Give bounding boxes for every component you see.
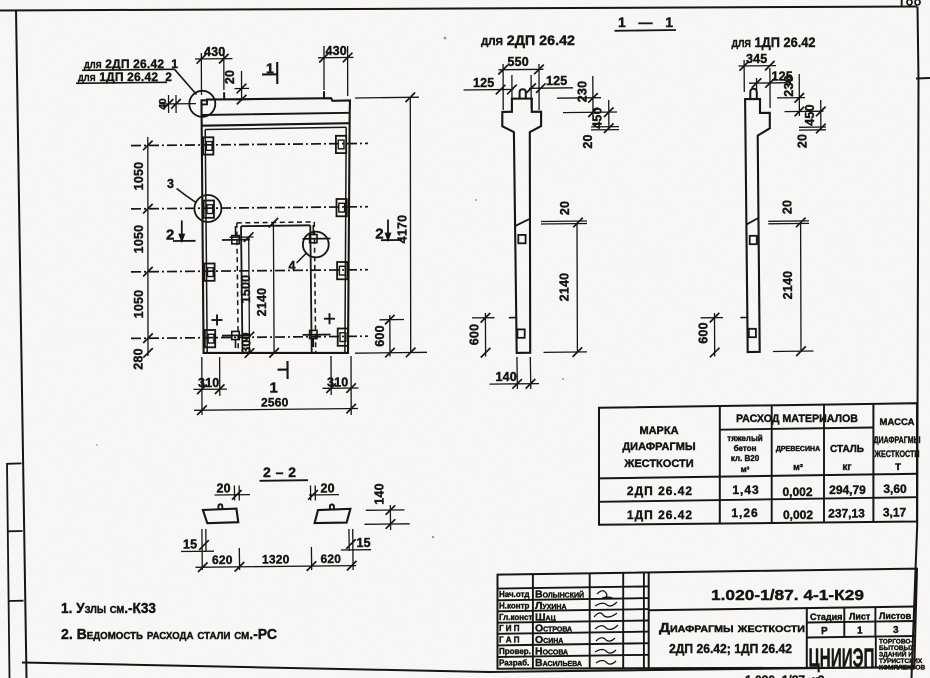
svg-text:2140: 2140 — [781, 271, 795, 300]
section B break line — [746, 218, 758, 225]
svg-text:310: 310 — [198, 376, 219, 390]
sig col line 3 — [622, 573, 624, 669]
svg-text:300: 300 — [240, 332, 254, 353]
dim 20 right (2-2) — [309, 486, 339, 501]
svg-text:Р: Р — [821, 626, 828, 637]
sig row line 3 — [498, 609, 649, 611]
svg-text:ДИАФРАГМЫ: ДИАФРАГМЫ — [622, 441, 696, 453]
svg-text:Н.контр: Н.контр — [499, 602, 530, 611]
door dashed top — [237, 222, 314, 223]
svg-text:Волынский: Волынский — [535, 589, 584, 601]
svg-text:230: 230 — [782, 75, 796, 96]
svg-text:Т: Т — [895, 462, 901, 473]
frame right line — [912, 7, 919, 678]
left inner edge line — [205, 130, 207, 353]
dim 20 B break — [768, 221, 809, 224]
svg-text:600: 600 — [697, 322, 711, 343]
door dim lines — [230, 223, 281, 354]
table col line 4 — [872, 404, 874, 522]
section B stub at 600 level — [740, 317, 746, 319]
section A hole 1 — [518, 235, 525, 243]
svg-text:125: 125 — [546, 74, 567, 88]
door plate axis upper right — [303, 238, 331, 240]
svg-text:280: 280 — [132, 348, 146, 369]
door dashed left — [237, 223, 239, 353]
right dim 600 — [380, 315, 405, 357]
svg-text:бетон: бетон — [734, 444, 757, 453]
right inner edge line — [345, 127, 346, 352]
dim 20 left (2-2) — [215, 486, 251, 501]
svg-text:для 1ДП 26.42 2: для 1ДП 26.42 2 — [78, 70, 172, 84]
table row line 2 — [599, 497, 917, 502]
dim 230 B — [777, 74, 805, 116]
section A break line — [516, 219, 530, 226]
svg-text:1,26: 1,26 — [731, 506, 758, 520]
svg-text:1.020-1/87. 4-1-К29: 1.020-1/87. 4-1-К29 — [711, 587, 864, 604]
top-left notch step — [202, 100, 208, 105]
svg-text:МАРКА: МАРКА — [639, 425, 678, 437]
dim 15 right (2-2) — [341, 529, 371, 570]
svg-text:м³: м³ — [793, 462, 803, 472]
svg-text:для 2ДП 26.42: для 2ДП 26.42 — [481, 32, 575, 48]
plate L3 — [204, 264, 214, 281]
dash-dot axis row 3 — [131, 270, 368, 272]
right edge fold dash — [916, 77, 930, 80]
svg-text:1050: 1050 — [132, 225, 146, 254]
dim 600 B — [701, 313, 724, 357]
dim line 310 right — [323, 387, 359, 389]
left slab piece — [203, 509, 238, 524]
svg-text:древесина: древесина — [776, 443, 820, 454]
plus mark right — [324, 313, 335, 324]
right slab pin — [330, 505, 334, 510]
section B body outline — [750, 89, 757, 99]
svg-text:237,13: 237,13 — [828, 507, 865, 521]
door plate axis lower right — [303, 334, 331, 336]
dim 125 left — [464, 75, 514, 108]
dash-dot axis row 1 — [131, 143, 368, 145]
svg-text:20: 20 — [781, 200, 795, 214]
svg-text:1050: 1050 — [132, 162, 146, 191]
dim 140 A — [490, 357, 540, 389]
svg-text:140: 140 — [373, 483, 387, 504]
svg-text:620: 620 — [212, 553, 233, 567]
svg-text:РАСХОД МАТЕРИАЛОВ: РАСХОД МАТЕРИАЛОВ — [736, 413, 858, 425]
svg-text:4170: 4170 — [396, 215, 410, 244]
svg-text:310: 310 — [327, 376, 348, 390]
dim 140 (2-2) — [365, 505, 410, 530]
svg-text:тяжелый: тяжелый — [727, 434, 763, 443]
svg-text:м³: м³ — [741, 465, 750, 474]
sig names column — [535, 589, 584, 670]
title block outer — [498, 569, 918, 669]
left dimension chain — [147, 137, 149, 356]
door dashed right — [314, 222, 315, 353]
dim line 2560 — [194, 409, 358, 411]
svg-text:ОО: ОО — [906, 0, 922, 8]
svg-text:кг: кг — [842, 462, 851, 473]
table row line 1 — [599, 474, 917, 479]
dim 430 right — [318, 46, 354, 96]
dim 2140 A — [544, 223, 588, 353]
svg-text:450: 450 — [591, 107, 605, 128]
svg-text:Лист: Лист — [849, 612, 871, 622]
svg-text:1320: 1320 — [262, 553, 290, 567]
lifting pin left — [223, 92, 225, 99]
section A body outline — [520, 89, 526, 98]
svg-text:20: 20 — [217, 482, 231, 496]
embedded plates: outer edges — [203, 136, 348, 347]
svg-text:Г А П: Г А П — [499, 636, 520, 645]
left margin cell tick 2 — [8, 530, 23, 532]
plate R4 — [338, 329, 348, 346]
plate R2 — [337, 199, 347, 216]
door plate axis upper left — [222, 239, 250, 241]
dim line 310 left — [194, 388, 228, 390]
plate L2 — [204, 201, 214, 218]
sig col line 2 — [589, 573, 591, 668]
panel outline with corner notches — [202, 98, 351, 353]
svg-text:Стадия: Стадия — [810, 612, 842, 622]
svg-text:кл. В20: кл. В20 — [731, 454, 760, 463]
svg-text:550: 550 — [508, 55, 529, 69]
svg-text:для 1ДП 26.42: для 1ДП 26.42 — [732, 34, 816, 50]
org col separator — [875, 637, 877, 667]
svg-text:2–2: 2–2 — [263, 464, 296, 480]
svg-text:Острова: Острова — [535, 623, 572, 635]
svg-text:Диафрагмы жесткости: Диафрагмы жесткости — [659, 620, 805, 635]
dim 40 (left of circle1) — [159, 95, 196, 113]
svg-text:600: 600 — [468, 324, 482, 345]
dim 430 left — [195, 53, 233, 95]
svg-text:15: 15 — [183, 538, 197, 552]
svg-text:Г И П: Г И П — [499, 624, 520, 633]
svg-text:ДИАФРАГМЫ: ДИАФРАГМЫ — [874, 435, 921, 446]
table header split line — [720, 428, 874, 430]
svg-text:2560: 2560 — [261, 396, 289, 410]
svg-text:1: 1 — [270, 380, 278, 397]
door solid top — [241, 224, 310, 227]
sig col line 1 — [532, 574, 534, 669]
left margin cell tick 3 — [9, 600, 24, 602]
bottom dim line 620/1320/620 — [196, 547, 357, 570]
dim line 2140 — [272, 223, 275, 354]
ext lines — [201, 357, 203, 415]
bottom dims of elevation — [194, 356, 359, 415]
dim 450 A — [563, 100, 617, 130]
svg-text:450: 450 — [803, 104, 817, 125]
svg-text:1: 1 — [857, 626, 863, 637]
svg-text:СТАЛЬ: СТАЛЬ — [830, 444, 864, 455]
svg-text:15: 15 — [357, 536, 371, 550]
inner line below beam — [205, 127, 346, 129]
svg-text:1.020–1/87–к2: 1.020–1/87–к2 — [745, 673, 825, 678]
svg-text:1,43: 1,43 — [732, 483, 759, 497]
svg-text:Осина: Осина — [535, 634, 563, 646]
beam mid line — [202, 113, 350, 115]
dim 450 B — [785, 100, 824, 130]
svg-text:0,002: 0,002 — [783, 508, 813, 522]
svg-text:3,17: 3,17 — [883, 506, 907, 520]
vertical sep before stamp — [806, 608, 808, 667]
door plate UR — [310, 235, 317, 243]
svg-text:20: 20 — [321, 482, 335, 496]
detail circle 1 (top-left corner) — [189, 91, 215, 117]
section A hole 2 — [517, 329, 524, 337]
svg-text:1ДП 26.42: 1ДП 26.42 — [627, 508, 693, 522]
doc number band bottom — [649, 607, 916, 611]
svg-text:125: 125 — [473, 76, 494, 90]
door solid right — [310, 225, 311, 352]
dim 230 A — [557, 76, 601, 116]
svg-text:3,60: 3,60 — [883, 482, 907, 496]
svg-text:20: 20 — [223, 70, 237, 84]
svg-text:Гл.конст: Гл.конст — [499, 613, 533, 622]
svg-text:2. Ведомость расхода стали см.: 2. Ведомость расхода стали см.-РС — [61, 627, 278, 643]
table outer border — [599, 403, 917, 525]
dim 20 A head — [591, 127, 619, 130]
svg-text:2ДП 26.42: 2ДП 26.42 — [627, 484, 693, 498]
svg-text:Провер.: Провер. — [499, 647, 531, 656]
dim 345 — [739, 60, 777, 92]
dim line 1500/300 — [248, 237, 251, 353]
svg-text:0,002: 0,002 — [782, 485, 812, 499]
dim 15 left (2-2) — [181, 529, 214, 570]
paper specks — [96, 37, 564, 612]
svg-text:40: 40 — [158, 98, 169, 110]
door plate LR — [310, 330, 317, 338]
door plate axis lower left — [222, 334, 250, 336]
sig row line 5 — [498, 632, 649, 634]
sig row line 4 — [498, 621, 649, 623]
stadia values underline — [807, 636, 916, 638]
right dim 4170 — [355, 97, 427, 353]
dim 20 A break — [541, 221, 587, 224]
svg-text:Листов: Листов — [879, 611, 912, 621]
svg-text:3: 3 — [893, 625, 899, 636]
svg-text:для 2ДП 26.42 1: для 2ДП 26.42 1 — [84, 57, 178, 71]
door solid left — [241, 226, 243, 353]
dim 2140 B — [773, 222, 814, 352]
dash-dot axis row 4 — [131, 336, 368, 338]
door plate LL — [232, 331, 239, 339]
big box left edge — [648, 572, 650, 668]
door embedded plates — [232, 225, 317, 348]
left slab pin — [218, 504, 222, 509]
svg-text:600: 600 — [373, 325, 387, 346]
dash-dot axis row 2 — [131, 207, 368, 209]
section B hole 1 — [750, 236, 757, 244]
top-right page number tick — [901, 0, 903, 7]
sig row line 2 — [498, 598, 649, 600]
sig row line 7 — [498, 655, 649, 657]
dim 20 (top) — [235, 71, 250, 101]
table col line 3 — [823, 405, 825, 523]
dim 20 B head — [799, 127, 826, 130]
svg-text:Васильева: Васильева — [535, 657, 582, 669]
org lines — [879, 639, 925, 672]
sig col line 4 — [643, 573, 645, 669]
svg-text:ЖЕСТКОСТИ: ЖЕСТКОСТИ — [623, 458, 693, 470]
svg-text:140: 140 — [496, 370, 517, 384]
sig row line 6 — [498, 643, 649, 645]
detail circle 3 — [194, 195, 221, 222]
dim 550 — [499, 64, 544, 110]
plus mark left — [212, 315, 223, 326]
ext line at door left top — [230, 236, 254, 238]
svg-text:1. Узлы см.-К33: 1. Узлы см.-К33 — [61, 601, 156, 617]
svg-text:20: 20 — [558, 201, 572, 215]
svg-text:Лухина: Лухина — [535, 600, 567, 612]
signatures (squiggles) — [594, 591, 618, 664]
svg-text:230: 230 — [576, 81, 590, 102]
table col line 1 — [719, 406, 721, 524]
stadia col 1 — [843, 608, 845, 638]
svg-text:4: 4 — [289, 259, 296, 273]
beam bottom line — [202, 123, 350, 126]
svg-text:430: 430 — [326, 44, 347, 58]
svg-text:ЖЕСТКОСТИ: ЖЕСТКОСТИ — [874, 449, 920, 460]
section B hole 2 — [749, 329, 756, 337]
door plate UL — [232, 236, 239, 244]
plate L1 — [203, 137, 213, 154]
left margin cell tick 1 — [7, 462, 22, 464]
svg-text:620: 620 — [321, 552, 342, 566]
svg-text:КОМПЛЕКСОВ: КОМПЛЕКСОВ — [879, 665, 925, 672]
svg-text:294,79: 294,79 — [829, 483, 866, 497]
label leader for 1/2 callout — [76, 69, 197, 94]
plate R3 — [337, 262, 347, 279]
svg-text:3: 3 — [167, 177, 174, 191]
svg-text:20: 20 — [796, 134, 810, 148]
svg-text:20: 20 — [581, 134, 595, 148]
left margin edge line — [7, 463, 10, 678]
svg-text:2140: 2140 — [558, 273, 572, 302]
dim 600 A — [472, 313, 495, 357]
stadia header underline — [807, 621, 916, 623]
sig labels column — [499, 590, 533, 668]
section A stub at 600 level — [509, 317, 516, 319]
right slab piece — [315, 509, 351, 523]
svg-text:Разраб.: Разраб. — [499, 659, 529, 668]
ext from door top corner — [262, 225, 280, 227]
table col line 2 — [771, 405, 773, 523]
svg-text:ЦНИИЭП: ЦНИИЭП — [809, 643, 875, 673]
frame top line — [0, 7, 917, 11]
svg-text:1500: 1500 — [239, 275, 253, 304]
frame bottom line — [22, 663, 914, 673]
svg-text:Нач.отд: Нач.отд — [499, 590, 529, 599]
dim 125 right — [529, 75, 573, 108]
detail circle 4 — [303, 232, 329, 258]
dim 125 B — [749, 68, 791, 108]
frame left line — [16, 10, 27, 678]
sig row line 1 — [498, 586, 649, 588]
svg-text:1050: 1050 — [132, 290, 146, 319]
svg-text:345: 345 — [746, 52, 767, 66]
svg-text:Носова: Носова — [535, 646, 568, 658]
svg-text:2ДП 26.42; 1ДП 26.42: 2ДП 26.42; 1ДП 26.42 — [669, 641, 792, 656]
svg-text:МАССА: МАССА — [880, 417, 915, 428]
lifting pin right — [323, 91, 325, 98]
svg-text:430: 430 — [204, 45, 225, 59]
plate L4 — [205, 330, 215, 347]
plate R1 — [336, 136, 346, 153]
svg-text:2140: 2140 — [255, 288, 269, 317]
stadia col 2 — [874, 607, 876, 637]
